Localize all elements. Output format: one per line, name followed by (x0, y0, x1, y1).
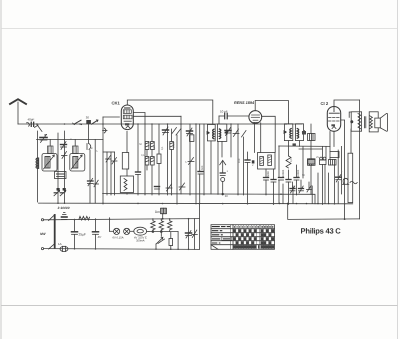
wire x=138 (137, 124, 139, 172)
node dots power rails (74, 218, 190, 250)
svg-text:25µF: 25µF (79, 233, 86, 237)
transformer secondary (369, 112, 378, 132)
coil L1 aerial (36, 158, 39, 168)
wire x=218 (217, 141, 219, 194)
svg-text:30: 30 (86, 116, 90, 120)
trimmer C30 (290, 186, 295, 193)
wire tap down (160, 232, 162, 236)
trimmer C31 (299, 186, 304, 193)
coil L6 (308, 159, 316, 166)
resistor R12 (190, 135, 194, 142)
svg-text:0,5: 0,5 (290, 158, 293, 162)
svg-text:1000: 1000 (173, 142, 176, 148)
coil L2 tuned box (42, 154, 57, 172)
wire CL2 cathode (329, 132, 331, 152)
wire vertical x=58 (57, 133, 59, 203)
IF can D (296, 124, 305, 141)
capacitor C3 blob (86, 120, 91, 124)
wire vertical x=64.5 (64, 131, 66, 203)
IF can C (284, 124, 293, 141)
node dots rail A B (57, 193, 345, 205)
terminal top (41, 219, 43, 221)
wire x=167.5 (167, 124, 169, 195)
resistor box U (258, 153, 276, 170)
trimmer C31b (307, 186, 312, 193)
wire stub (103, 151, 115, 153)
table header ticks (233, 225, 271, 250)
capacitor C23 (245, 160, 254, 164)
wire second rail y=139.5 (37, 139, 104, 141)
wire can B down (221, 141, 223, 157)
wire mains top (44, 219, 200, 220)
wire antenna bus y=124 (18, 123, 302, 125)
wire x=152 (151, 124, 153, 142)
wire transformer left down (350, 129, 352, 153)
svg-text:0,1: 0,1 (141, 154, 145, 157)
wire (130, 230, 134, 232)
IF can B (217, 124, 227, 141)
switch S3 (92, 120, 99, 124)
switch S2 contacts (73, 120, 83, 125)
wire x=243.5 (243, 137, 245, 195)
capacitor C1 40pF series (27, 122, 35, 127)
switch S1 wave band (35, 124, 43, 132)
svg-text:NW: NW (40, 232, 46, 236)
lamp LA2 (124, 228, 130, 234)
wire CK1 screen right (134, 115, 182, 117)
trimmer C37 (192, 230, 198, 238)
node junction (344, 218, 346, 220)
svg-text:500: 500 (201, 165, 204, 170)
resistor R7 (170, 142, 174, 150)
wire CK1 cathode down (126, 131, 128, 152)
wire CK1 grid left (103, 116, 119, 118)
wire x=74 (74, 219, 76, 231)
choke Dm (161, 208, 167, 214)
box R6 (157, 154, 161, 164)
wire y=149 stub (299, 148, 322, 150)
resistor R3 (151, 142, 155, 150)
terminal bottom (41, 248, 43, 250)
main rail A y=195 (103, 194, 315, 204)
page edge line bottom (1, 305, 398, 307)
svg-text:Philips 43 C: Philips 43 C (301, 226, 342, 235)
wire x=90 (89, 150, 91, 181)
switch S6 (242, 131, 247, 138)
capacitor C40 blob (302, 131, 306, 135)
wire x=247.5 (247, 152, 249, 160)
capacitor C33 line cap (62, 213, 68, 220)
svg-text:CK1: CK1 (112, 101, 121, 106)
trimmer C36 (186, 231, 192, 239)
wire can C down (287, 141, 289, 146)
wire right drop (177, 232, 179, 249)
wire x=181 (180, 116, 182, 194)
wire RENS top to can C (255, 101, 288, 124)
speaker LS (375, 113, 388, 131)
wire x=190 (189, 124, 191, 195)
wire x=159 (158, 124, 160, 154)
tube RENS 1894 (249, 111, 262, 124)
lamp LA1 (114, 228, 120, 234)
wire grid RENS (219, 115, 224, 117)
capacitor C28 (294, 178, 299, 181)
indicator Ω (342, 178, 349, 184)
trimmer C14 (163, 127, 169, 135)
capacitor grid CK1 (104, 128, 106, 133)
jack arrow input (220, 160, 226, 172)
switch S8 top (49, 215, 56, 221)
page edge line right (397, 0, 399, 339)
potentiometer P2 box (120, 176, 133, 193)
coil K2 (73, 146, 79, 154)
wire top rail y=99 (127, 100, 213, 124)
resistor R10 zigzag (79, 216, 89, 220)
wire mains bottom (44, 248, 200, 251)
wire x=326 (325, 147, 327, 161)
wire x=196 (195, 124, 197, 204)
capacitor C8 (87, 144, 91, 150)
wire x=334 down (333, 132, 335, 147)
resistor R9 (308, 160, 315, 165)
capacitor C19 (198, 172, 203, 175)
switch S10 arrow (156, 237, 165, 244)
wire x=107 (106, 152, 108, 195)
fuse F1 (60, 246, 68, 251)
capacitor C34 25uF (72, 232, 78, 235)
wire x=238 (237, 124, 239, 195)
table fills (233, 229, 274, 248)
capacitor C13 (155, 187, 160, 190)
IF can A (207, 125, 216, 141)
wire x=204 (203, 124, 205, 195)
wire x=311 (310, 124, 312, 134)
node dots rail y124 (36, 123, 287, 125)
capacitor C25 (271, 180, 276, 183)
resistor field coil tall (348, 153, 353, 202)
gang capacitor C6 (54, 188, 60, 196)
padder C5 box (55, 172, 67, 179)
wire x=200 up (198, 204, 200, 250)
trimmer C2 (40, 135, 47, 143)
wire x=95.5 (95, 219, 97, 232)
svg-text:RENS 1894: RENS 1894 (234, 101, 255, 105)
gang capacitor C7 (60, 188, 66, 196)
transformer T1 output primary (349, 112, 361, 131)
svg-text:6V 0,15A: 6V 0,15A (113, 236, 124, 239)
wire can D down (299, 141, 301, 147)
svg-text:Dm: Dm (155, 210, 160, 214)
capacitor C26 (279, 178, 284, 181)
rotated can labels (267, 169, 300, 177)
svg-text:1A: 1A (58, 242, 62, 246)
svg-text:350mA: 350mA (136, 239, 145, 242)
wire x=231 (230, 124, 232, 157)
svg-text:40pF: 40pF (28, 117, 35, 121)
capacitor C35 (93, 232, 99, 235)
wire x=111 (110, 152, 112, 195)
tube CK1 (121, 105, 133, 130)
wire RENS cathode down (254, 123, 256, 153)
coil L5 (308, 134, 316, 141)
jack circle (221, 178, 225, 182)
wire y=146.5 right (279, 145, 330, 147)
wire vertical x=75.2 (74, 140, 76, 147)
capacitor C27 (286, 180, 291, 183)
wire x=145 (144, 124, 146, 195)
trimmer C4b (62, 152, 68, 159)
svg-text:3·10000: 3·10000 (58, 206, 70, 210)
capacitor C12 (136, 172, 141, 175)
svg-text:30: 30 (225, 195, 228, 198)
trimmer C15 (166, 184, 172, 191)
coil K1 (48, 146, 54, 154)
svg-text:10000: 10000 (297, 169, 300, 177)
wire x=88.5 down to De (88, 124, 90, 143)
switch S5 (176, 129, 181, 136)
page edge line top (1, 28, 398, 30)
table row labels (212, 227, 231, 243)
trimmer C17 (187, 128, 193, 136)
switch S9 bottom (49, 244, 56, 250)
capacitor C20 10pF (225, 113, 228, 119)
antenna (10, 99, 26, 124)
wire x=147 links (146, 150, 148, 157)
wire stub verticals right (283, 165, 329, 204)
resistor R2 (145, 142, 149, 150)
trimmer C16 (179, 183, 185, 190)
table header digits (234, 226, 273, 228)
trimmer C18 (188, 158, 194, 165)
switch S7 wave (350, 181, 357, 184)
wire x=177 (176, 135, 178, 204)
trimmer C11 (112, 158, 118, 165)
main rail B y=204 (39, 202, 353, 205)
wire x=338 (337, 150, 339, 177)
resistor R4 (145, 157, 149, 166)
wire vertical x=50.2 (49, 140, 51, 147)
wire x=171.5 (171, 129, 173, 142)
switch S4 (172, 128, 177, 134)
trimmer C39 (94, 180, 99, 187)
potentiometer P1 (122, 153, 128, 170)
switch bar (54, 215, 56, 248)
wire transformer right down (359, 100, 361, 219)
box hatched (329, 160, 337, 166)
wire x=341.6 (341, 146, 343, 194)
svg-text:Cl 2: Cl 2 (321, 101, 329, 106)
trimmer C32 (336, 175, 341, 182)
wire x=114.5 (114, 152, 116, 195)
wire x=95.2 (94, 140, 96, 204)
capacitor C24 (264, 178, 269, 181)
svg-text:0,1: 0,1 (161, 146, 164, 150)
svg-text:100: 100 (238, 158, 241, 163)
tiny value labels (70, 138, 343, 177)
table (211, 225, 275, 250)
wire CL2 right anode (341, 120, 344, 219)
small box K1 (330, 152, 339, 158)
wire can A down (210, 141, 212, 194)
svg-text:0,3: 0,3 (153, 146, 156, 150)
trimmer C38 (88, 178, 94, 185)
trimmer C21 (225, 128, 231, 136)
wire CK1 anode right (134, 113, 146, 125)
pot with circles (320, 157, 327, 164)
wire vertical x=37.5 (37, 131, 39, 202)
ballast B1 (134, 227, 147, 235)
svg-text:5000: 5000 (267, 171, 270, 177)
resistor R8 zigzag (286, 156, 291, 168)
resistor R5 (151, 157, 155, 166)
svg-text:10 pF: 10 pF (220, 110, 228, 114)
wire bottom return (288, 203, 360, 219)
wire vertical x=103 (102, 117, 104, 204)
wire x=322.5 (322, 147, 324, 161)
transformer core (363, 117, 365, 128)
wire x=266 (265, 169, 267, 177)
heater resistor network (149, 219, 178, 233)
tube CL2 (327, 107, 340, 132)
wire RENS anode right (262, 116, 276, 152)
coil L3 box (70, 154, 85, 172)
trimmer C22 (233, 129, 239, 137)
capacitor C29 (220, 173, 225, 176)
svg-text:10000: 10000 (282, 169, 285, 177)
wire x=303 (302, 147, 304, 179)
page edge line left (0, 0, 2, 339)
resistor R11 (169, 239, 173, 246)
wire (126, 169, 128, 176)
wire lamp row (109, 218, 111, 232)
trimmer C10 (106, 156, 112, 163)
node dots rail B (279, 203, 330, 205)
wire x=200.5 (199, 124, 201, 172)
trimmer C4 (61, 142, 67, 150)
wire CL2 top to speaker line (334, 100, 360, 106)
